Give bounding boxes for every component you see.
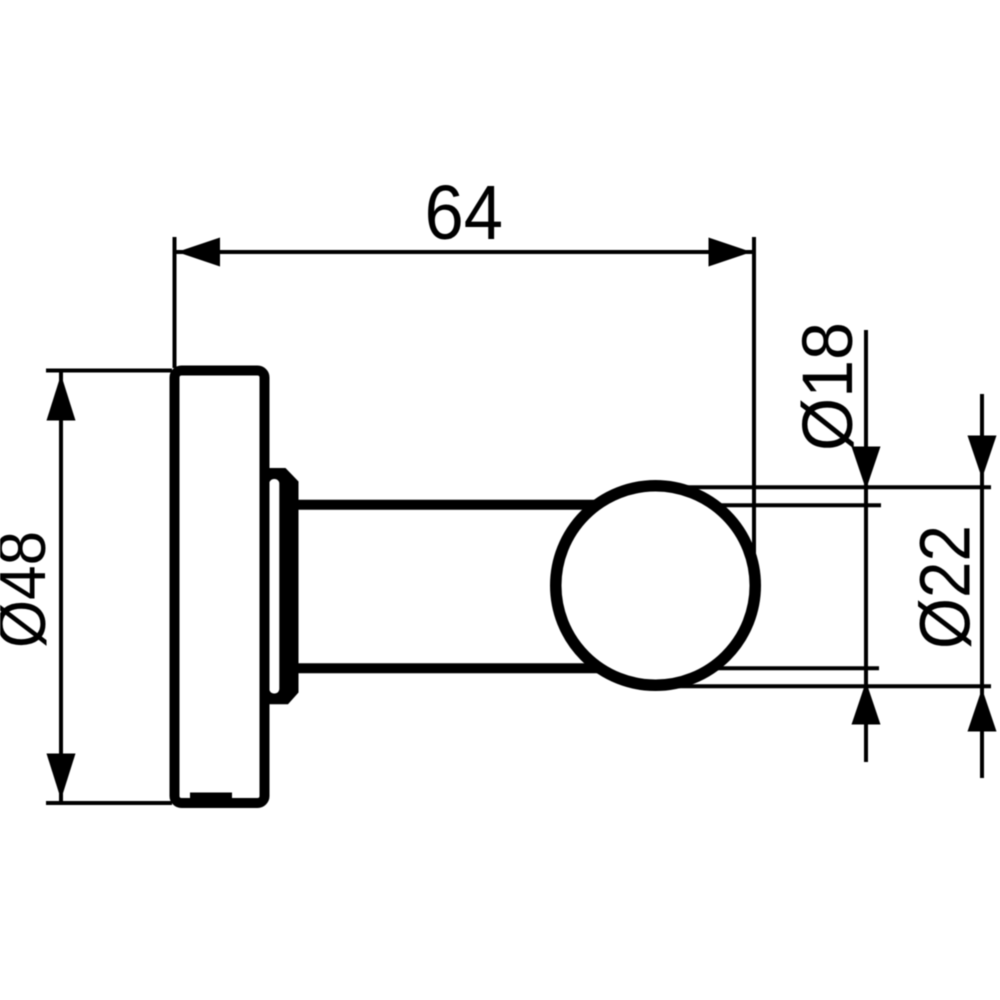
svg-text:64: 64 (425, 170, 504, 256)
svg-text:Ø22: Ø22 (907, 525, 986, 649)
svg-text:Ø48: Ø48 (0, 531, 60, 648)
svg-text:Ø18: Ø18 (789, 322, 868, 451)
